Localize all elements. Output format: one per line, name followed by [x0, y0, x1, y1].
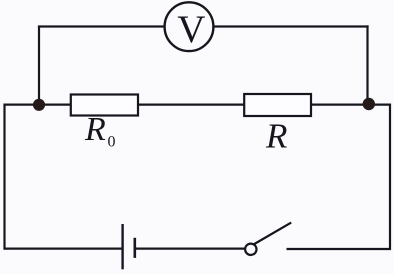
svg-text:0: 0 — [108, 134, 116, 151]
wire : voltmeter branch left vertical — [38, 27, 40, 106]
wire : bottom-right segment from switch — [287, 248, 392, 250]
battery : short plate (negative) — [134, 238, 137, 258]
switch S : lever arm — [254, 223, 292, 245]
wire : middle horizontal bus at y=104.5 — [4, 103, 392, 105]
wire : voltmeter branch right vertical — [366, 25, 368, 104]
node : left junction dot — [33, 99, 45, 111]
resistor R0 : box — [71, 95, 138, 116]
wire : voltmeter branch top-left horizontal — [38, 25, 164, 27]
wire : right vertical of main loop — [389, 104, 391, 250]
wire : bottom-left segment to battery — [4, 248, 123, 250]
resistor R : box — [244, 94, 311, 116]
battery : long plate (positive) — [121, 224, 123, 269]
wire : bottom-middle segment battery to switch — [135, 248, 245, 250]
wire : voltmeter branch top-right horizontal — [214, 25, 369, 27]
svg-text:R: R — [84, 111, 106, 148]
node : right junction dot — [363, 98, 375, 110]
wire : left vertical of main loop — [3, 104, 5, 250]
switch S : pivot ring — [245, 244, 256, 255]
svg-text:R: R — [265, 116, 287, 155]
voltmeter V : circle body — [165, 2, 214, 51]
svg-text:V: V — [177, 8, 205, 51]
